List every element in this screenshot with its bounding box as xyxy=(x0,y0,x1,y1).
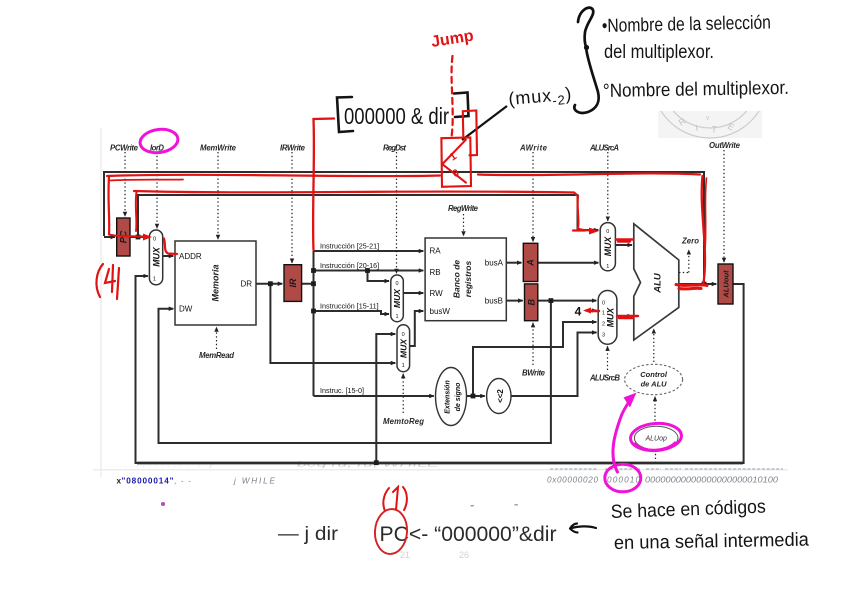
svg-text:MUX: MUX xyxy=(151,246,161,267)
svg-text:ALUop: ALUop xyxy=(644,436,667,443)
svg-text:AWrite: AWrite xyxy=(519,144,548,153)
svg-text:-: - xyxy=(470,497,474,512)
svg-text:A: A xyxy=(526,259,536,267)
svg-text:0x00000020: 0x00000020 xyxy=(547,476,598,485)
svg-text:v: v xyxy=(706,115,710,122)
svg-text:MemtoReg: MemtoReg xyxy=(383,417,424,426)
node ALUout feedback junction xyxy=(374,460,379,465)
wire B to ALUSrcB mux0 xyxy=(538,300,597,302)
magenta dot xyxy=(161,502,165,506)
control MemRead line xyxy=(216,327,218,349)
control ALUop below line xyxy=(655,450,657,462)
red dash at muxA output xyxy=(616,240,633,242)
svg-text:de signo: de signo xyxy=(455,382,462,412)
svg-text:busW: busW xyxy=(430,307,451,316)
red annotation 4 left xyxy=(96,264,119,299)
svg-text:MUX: MUX xyxy=(398,338,408,358)
magenta circle IorD xyxy=(139,127,180,155)
instruction field labels xyxy=(320,242,379,396)
wire RegDst mux to RW xyxy=(403,292,423,294)
svg-text:000000 & dir: 000000 & dir xyxy=(344,103,449,129)
wire ALUSrcB mux to ALU xyxy=(617,315,632,317)
register A xyxy=(523,243,538,281)
red elbow mux to ADDR xyxy=(164,239,177,255)
control ALUSrcA line xyxy=(607,152,609,221)
svg-text:Instrucción [15-11]: Instrucción [15-11] xyxy=(320,302,379,311)
svg-text:busA: busA xyxy=(485,259,504,268)
node instruccion 20-16 junction xyxy=(365,268,370,273)
node instruction bus junction 20-16 xyxy=(311,268,316,273)
svg-text:21: 21 xyxy=(400,550,410,560)
wire branch to RegDst mux0 xyxy=(368,271,390,282)
pointer line from mux2 xyxy=(462,106,507,140)
svg-text:0: 0 xyxy=(606,229,609,235)
svg-text:Instruc. [15-0]: Instruc. [15-0] xyxy=(320,386,364,395)
svg-text:RegDst: RegDst xyxy=(383,144,406,153)
svg-text:<<2: <<2 xyxy=(496,389,505,403)
svg-text:j WHILE: j WHILE xyxy=(233,477,276,486)
svg-text:MemWrite: MemWrite xyxy=(200,144,237,153)
red trace wire2 xyxy=(134,191,594,231)
magenta circle 000010 xyxy=(605,464,641,492)
svg-text:IR: IR xyxy=(288,278,298,288)
svg-text:RegWrite: RegWrite xyxy=(448,204,479,213)
svg-text:ALUout: ALUout xyxy=(721,270,730,299)
svg-text:1: 1 xyxy=(153,277,156,283)
hand arrow left xyxy=(570,524,596,533)
svg-text:IRWrite: IRWrite xyxy=(280,144,306,153)
control ALUop to control line xyxy=(654,397,656,425)
wire busA to A xyxy=(506,262,521,264)
shifter left 2 xyxy=(487,379,511,414)
svg-text:°Nombre del multiplexor.: °Nombre del multiplexor. xyxy=(603,78,789,102)
svg-text:1: 1 xyxy=(402,363,405,369)
svg-text:DR: DR xyxy=(240,280,252,289)
svg-text:busB: busB xyxy=(485,297,503,306)
red trace ALU output xyxy=(676,285,707,289)
svg-text:(mux-2): (mux-2) xyxy=(508,84,573,112)
control MemWrite line xyxy=(217,152,219,239)
mux IorD xyxy=(149,230,162,285)
svg-text:Memoria: Memoria xyxy=(211,264,221,301)
svg-text:26: 26 xyxy=(459,550,469,560)
control IRWrite line xyxy=(291,152,293,263)
wire instruc 15-0 xyxy=(314,395,434,397)
svg-text:OutWrite: OutWrite xyxy=(709,141,741,150)
control RegDst line xyxy=(396,152,398,273)
svg-text:PCWrite: PCWrite xyxy=(110,144,139,153)
svg-text:Se hace en códigos: Se hace en códigos xyxy=(610,497,766,523)
wire A to ALUSrcA mux1 xyxy=(538,262,599,264)
svg-text:1: 1 xyxy=(447,150,459,163)
wire ALUout bottom feedback to IorD mux xyxy=(136,276,744,463)
memory block Memoria xyxy=(175,241,256,325)
magenta circle ALUop xyxy=(630,422,683,452)
control OutWrite line xyxy=(723,150,725,262)
red annotation 1 xyxy=(383,487,407,511)
ALU U1 xyxy=(634,224,679,340)
svg-text:registros: registros xyxy=(463,261,473,298)
red jump wire vertical xyxy=(313,119,334,251)
mux MemtoReg xyxy=(397,325,410,372)
svg-text:del multiplexor.: del multiplexor. xyxy=(604,42,714,63)
magenta arrowhead xyxy=(624,393,637,408)
svg-text:•Nombre de la selección: •Nombre de la selección xyxy=(602,12,771,37)
control IorD line xyxy=(156,152,158,228)
control RegWrite line xyxy=(463,214,465,236)
mux ALUSrcB xyxy=(598,291,617,345)
svg-text:Instrucción [25-21]: Instrucción [25-21] xyxy=(320,242,379,251)
zero flag line xyxy=(679,250,689,273)
wire mux to ADDR xyxy=(163,255,174,257)
node sign extend output junction xyxy=(471,394,476,399)
wire IR to instruction bus xyxy=(302,251,314,396)
control ALUSrcB line xyxy=(607,346,609,370)
wire DR to IR xyxy=(256,283,282,285)
svg-text:Banco de: Banco de xyxy=(452,260,462,299)
svg-text:ALUSrcA: ALUSrcA xyxy=(589,144,619,153)
screenshot bottom edge xyxy=(93,469,788,471)
faded erased text xyxy=(124,460,441,471)
svg-text:"08000014": "08000014" xyxy=(122,477,174,486)
red trace top wire xyxy=(107,173,700,176)
red arrow into ALUSrcA mux xyxy=(573,229,585,231)
wire PC input arrow xyxy=(104,236,115,238)
svg-text:Extensión: Extensión xyxy=(445,380,452,413)
node PC output junction xyxy=(136,235,141,240)
svg-text:B: B xyxy=(526,299,536,306)
wire PC to mux0 xyxy=(130,236,148,238)
svg-text:RW: RW xyxy=(430,289,444,298)
svg-text:4: 4 xyxy=(575,305,582,319)
svg-text:0: 0 xyxy=(602,301,605,307)
svg-text:0: 0 xyxy=(153,237,156,243)
svg-text:MUX: MUX xyxy=(392,288,402,308)
svg-text:1: 1 xyxy=(395,314,398,320)
wire top feedback ALU to PC xyxy=(104,172,704,284)
wire ALU out to ALUout xyxy=(679,283,717,285)
control MemtoReg line xyxy=(402,374,404,413)
note line 1 xyxy=(602,12,771,37)
svg-text:RB: RB xyxy=(430,268,441,277)
svg-text:Instrucción [20-16]: Instrucción [20-16] xyxy=(320,261,379,270)
red dash at muxB output xyxy=(617,316,638,318)
red trace vertical at 136 xyxy=(135,192,138,231)
wire ALUout to MemtoReg mux0 xyxy=(376,334,395,463)
wire MemtoReg mux to busW xyxy=(410,311,424,346)
node instruction bus junction IR xyxy=(311,281,316,286)
mux RegDst xyxy=(391,275,404,322)
register file Banco de registros xyxy=(425,238,506,321)
wire ext signo to shift xyxy=(467,395,485,397)
wire B to DW xyxy=(159,301,551,443)
svg-text:ALU: ALU xyxy=(653,272,664,294)
note se hace xyxy=(610,497,809,554)
svg-text:0: 0 xyxy=(451,167,462,180)
register IR xyxy=(284,265,302,302)
svg-text:en una señal intermedia: en una señal intermedia xyxy=(614,530,810,554)
wire constant 4 xyxy=(585,310,596,312)
red dashed jump control xyxy=(452,56,453,137)
svg-text:0: 0 xyxy=(395,281,398,287)
brace xyxy=(574,8,598,113)
svg-text:00000000000000000000010100: 00000000000000000000010100 xyxy=(645,476,778,485)
wire shift to ALUSrcB mux3 xyxy=(511,333,597,397)
wire PC up to ALUSrcA mux xyxy=(138,195,598,237)
red trace right vertical xyxy=(702,176,705,283)
red mux drawing xyxy=(441,111,477,187)
node instruction bus junction 15-11 xyxy=(311,309,316,314)
svg-text:MUX: MUX xyxy=(603,236,613,257)
sign extender Extension de signo xyxy=(436,368,467,426)
wire ALUSrcA mux to ALU xyxy=(615,244,632,246)
svg-text:-: - xyxy=(514,496,518,511)
node ALU output junction xyxy=(702,282,707,287)
bracket dir label xyxy=(337,93,469,133)
svg-text:Jump: Jump xyxy=(430,27,475,51)
wire ext signo to ALUSrcB mux2 xyxy=(473,322,596,396)
wire instruccion 15-11 xyxy=(314,311,390,314)
svg-text:ADDR: ADDR xyxy=(179,252,202,261)
note line 3 xyxy=(603,78,789,102)
mux ALUSrcA xyxy=(600,223,615,271)
node busB junction xyxy=(549,298,554,303)
control BWrite line xyxy=(532,323,534,365)
dashed separator over binary xyxy=(550,468,783,470)
svg-text:,--: ,-- xyxy=(174,477,191,486)
red circle around PC xyxy=(373,508,408,555)
wire instruccion 20-16 xyxy=(314,270,424,272)
svg-text:Control: Control xyxy=(640,370,668,379)
register B xyxy=(525,284,538,321)
svg-text:RA: RA xyxy=(430,247,442,256)
red trace left vertical xyxy=(109,177,148,237)
control ALU op to ALU line xyxy=(653,329,655,362)
control PCWrite line xyxy=(124,152,126,216)
svg-text:BWrite: BWrite xyxy=(522,369,546,378)
control AWrite line xyxy=(532,152,534,242)
svg-text:000010: 000010 xyxy=(607,476,640,485)
ALU control unit xyxy=(625,364,683,394)
magenta arrow to control xyxy=(613,401,630,472)
slide left edge xyxy=(100,128,102,477)
svg-text:DW: DW xyxy=(179,305,193,314)
register PC xyxy=(117,218,130,256)
wire busB to B xyxy=(506,300,522,302)
code line x08000014 xyxy=(117,476,779,486)
svg-text:MUX: MUX xyxy=(606,307,616,328)
svg-text:Zero: Zero xyxy=(681,237,699,246)
svg-text:MemRead: MemRead xyxy=(199,351,234,360)
svg-text:3: 3 xyxy=(602,333,605,339)
red arrow at constant 4 xyxy=(591,310,599,312)
svg-text:— j dir: — j dir xyxy=(278,524,339,545)
wire DR to MemtoReg mux1 xyxy=(270,284,395,363)
svg-text:de ALU: de ALU xyxy=(641,380,668,389)
svg-text:ALUSrcB: ALUSrcB xyxy=(589,374,620,383)
wire instruccion 25-21 xyxy=(314,250,424,252)
register ALUout xyxy=(718,264,733,304)
svg-text:0: 0 xyxy=(402,332,405,338)
node DR junction xyxy=(268,281,273,286)
svg-text:1: 1 xyxy=(606,264,609,270)
ALUop oval xyxy=(634,426,678,450)
red arrowheads xyxy=(143,228,599,314)
